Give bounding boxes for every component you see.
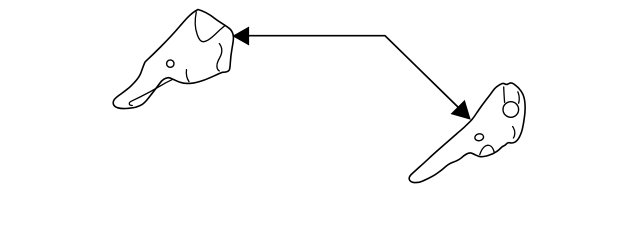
arrowhead right	[452, 101, 471, 119]
left part top U crease	[195, 12, 224, 42]
arrowhead left	[233, 27, 248, 44]
right part lower-right crease	[513, 127, 515, 139]
right part big hole	[503, 102, 519, 118]
arrow shaft (bent leader line)	[249, 36, 462, 110]
right part bottom arch detail	[480, 145, 494, 154]
left part right crease	[217, 44, 222, 71]
right part vertical crease	[503, 87, 506, 102]
right part top-right crease	[518, 92, 519, 103]
left bracket part outline	[113, 10, 233, 109]
left part hole	[167, 60, 174, 67]
right part small oval hole	[474, 133, 484, 141]
right bracket part outline	[409, 83, 525, 183]
left part heel crease	[186, 70, 189, 82]
left part arm inner line	[129, 80, 172, 106]
